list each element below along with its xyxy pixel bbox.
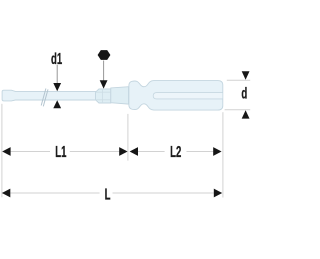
d extension line top	[227, 79, 250, 81]
d1 leader line	[56, 65, 58, 83]
extension line left	[1, 104, 3, 198]
handle body	[129, 81, 223, 111]
L1 dimension line	[10, 151, 120, 153]
d1 arrow up	[53, 100, 61, 108]
hex symbol	[98, 50, 111, 60]
neck collar	[111, 87, 129, 104]
d arrow down	[242, 71, 250, 80]
L arrow right	[214, 189, 222, 198]
extension line right	[222, 112, 224, 197]
shaft break marks	[41, 89, 48, 107]
hex bolster facet lines	[96, 89, 111, 103]
d arrow up	[242, 110, 250, 118]
handle groove	[153, 93, 222, 99]
L dimension line	[10, 192, 214, 194]
d extension line bottom	[225, 109, 251, 111]
L1 arrow left	[2, 147, 10, 156]
L2 dimension line	[138, 151, 214, 153]
screwdriver blade tip and shaft	[2, 90, 96, 101]
svg-text:d1: d1	[51, 49, 62, 67]
svg-text:L2: L2	[170, 143, 181, 161]
L1 arrow right	[119, 147, 127, 156]
svg-text:L: L	[105, 185, 111, 203]
hex arrow down	[100, 80, 108, 88]
hex leader line	[103, 61, 105, 81]
L2 arrow right	[213, 147, 221, 156]
svg-text:d: d	[241, 84, 247, 102]
extension line middle	[127, 114, 129, 161]
d1 arrow down	[53, 83, 61, 91]
svg-text:L1: L1	[55, 143, 66, 161]
L2 arrow left	[130, 147, 138, 156]
L arrow left	[2, 189, 10, 198]
hex bolster	[96, 89, 111, 103]
